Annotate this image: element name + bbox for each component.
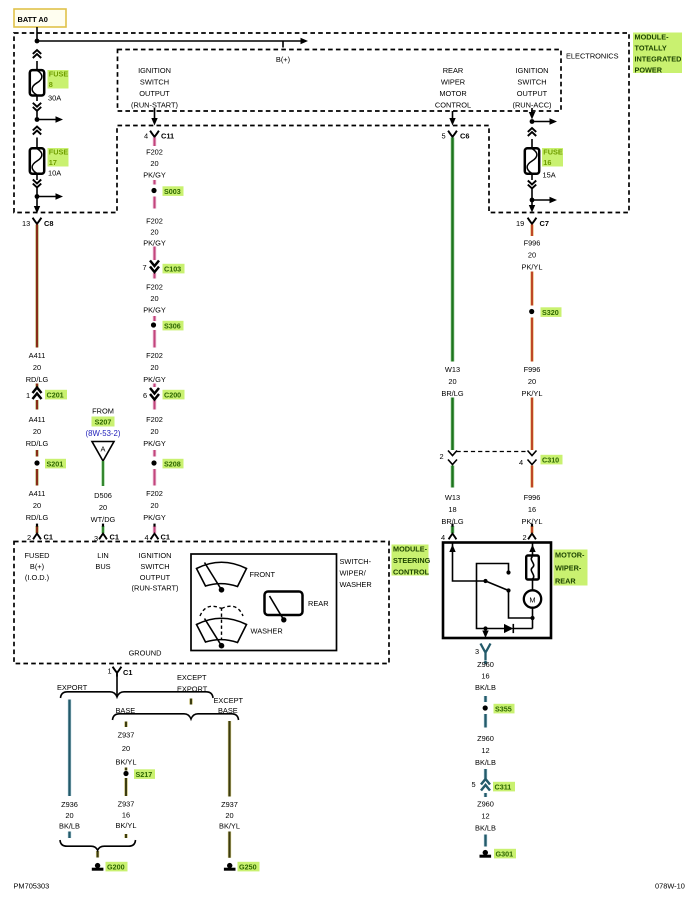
svg-text:20: 20 <box>150 159 158 168</box>
svg-text:PK/GY: PK/GY <box>143 171 166 180</box>
wire cap <box>531 524 533 527</box>
svg-text:2: 2 <box>523 533 527 542</box>
svg-text:4: 4 <box>441 533 445 542</box>
svg-text:S208: S208 <box>164 460 181 469</box>
svg-text:C7: C7 <box>540 219 549 228</box>
svg-text:W13: W13 <box>445 365 460 374</box>
wire contact loop <box>477 564 509 629</box>
svg-text:F996: F996 <box>524 493 541 502</box>
svg-text:3: 3 <box>475 647 479 656</box>
junction motor return <box>530 616 534 620</box>
wire <box>532 189 551 201</box>
junction <box>35 117 40 122</box>
svg-text:8: 8 <box>49 80 53 89</box>
svg-text:PK/GY: PK/GY <box>143 375 166 384</box>
switch contact <box>506 570 510 574</box>
svg-text:F202: F202 <box>146 148 163 157</box>
svg-text:RD/LG: RD/LG <box>26 439 49 448</box>
svg-text:C310: C310 <box>542 456 559 465</box>
wire Z960 BK/LB <box>484 661 488 847</box>
svg-text:6: 6 <box>143 391 147 400</box>
svg-text:S003: S003 <box>164 187 181 196</box>
svg-text:PM705303: PM705303 <box>14 882 50 891</box>
svg-text:IGNITION: IGNITION <box>138 66 171 75</box>
svg-text:G301: G301 <box>496 850 514 859</box>
svg-text:ELECTRONICS: ELECTRONICS <box>566 52 619 61</box>
svg-text:TOTALLY: TOTALLY <box>635 44 667 53</box>
module steering control box (dashed) <box>14 542 389 664</box>
svg-text:PK/GY: PK/GY <box>143 439 166 448</box>
wire cap <box>451 524 453 527</box>
connector C7 pin 19 <box>528 218 537 228</box>
wire cap <box>153 524 155 527</box>
svg-text:7: 7 <box>143 263 147 272</box>
svg-text:20: 20 <box>33 363 41 372</box>
svg-text:MOTOR-: MOTOR- <box>555 551 585 560</box>
svg-text:C6: C6 <box>460 132 469 141</box>
wire F996 PK/YL <box>530 225 534 534</box>
svg-text:Z960: Z960 <box>477 660 494 669</box>
svg-text:FUSE: FUSE <box>49 148 69 157</box>
fuse 8 <box>30 70 44 95</box>
module label TOTALLY INTEGRATED POWER <box>633 33 682 74</box>
connector pin 3 (fork below motor box) <box>481 644 491 661</box>
svg-text:Z937: Z937 <box>118 731 135 740</box>
wire <box>37 111 57 120</box>
svg-text:15A: 15A <box>543 171 556 180</box>
svg-text:16: 16 <box>481 672 489 681</box>
svg-text:BASE: BASE <box>218 706 238 715</box>
svg-text:CONTROL: CONTROL <box>435 101 471 110</box>
svg-text:D506: D506 <box>94 491 112 500</box>
svg-text:C11: C11 <box>161 132 174 141</box>
svg-text:MODULE-: MODULE- <box>635 33 670 42</box>
svg-text:MOTOR: MOTOR <box>439 89 466 98</box>
switch blade <box>486 581 509 591</box>
svg-text:5: 5 <box>472 780 476 789</box>
splice S320 <box>529 309 534 314</box>
splice S217 <box>123 771 128 776</box>
svg-text:16: 16 <box>528 505 536 514</box>
svg-text:A411: A411 <box>29 415 46 424</box>
svg-text:B(+): B(+) <box>30 562 44 571</box>
svg-text:Z937: Z937 <box>221 800 238 809</box>
svg-text:RD/LG: RD/LG <box>26 375 49 384</box>
svg-text:SWITCH-: SWITCH- <box>340 557 372 566</box>
splice S355 <box>483 705 488 710</box>
svg-text:(I.O.D.): (I.O.D.) <box>25 573 49 582</box>
svg-text:REAR: REAR <box>555 576 576 585</box>
connector C11 pin 4 <box>150 131 159 141</box>
wire <box>532 120 551 122</box>
svg-text:C1: C1 <box>44 533 53 542</box>
connector C201 pin 1 <box>33 388 42 400</box>
motor armature <box>524 590 541 607</box>
svg-text:30A: 30A <box>48 94 61 103</box>
svg-text:BK/YL: BK/YL <box>219 822 240 831</box>
svg-text:G250: G250 <box>239 863 257 872</box>
wire to diode <box>486 628 505 630</box>
svg-text:BK/YL: BK/YL <box>116 758 137 767</box>
wire cap <box>102 524 104 527</box>
svg-text:FUSED: FUSED <box>24 551 49 560</box>
svg-text:1: 1 <box>26 391 30 400</box>
connector chevrons above fuse 16 <box>528 128 536 136</box>
connector C1 pin 3 (male) <box>99 534 107 540</box>
svg-text:FROM: FROM <box>92 407 114 416</box>
svg-text:FRONT: FRONT <box>250 570 276 579</box>
svg-text:B(+): B(+) <box>276 55 290 64</box>
svg-text:C1: C1 <box>123 668 132 677</box>
wire arrow to C11 <box>154 108 156 119</box>
junction <box>35 39 40 44</box>
svg-text:G200: G200 <box>107 863 125 872</box>
wire <box>36 197 38 208</box>
svg-text:LIN: LIN <box>97 551 109 560</box>
svg-text:WIPER-: WIPER- <box>555 564 582 573</box>
svg-text:PK/YL: PK/YL <box>522 389 543 398</box>
svg-text:20: 20 <box>150 427 158 436</box>
svg-text:A411: A411 <box>29 489 46 498</box>
svg-text:10A: 10A <box>48 169 61 178</box>
module TIPM outline (dashed) <box>14 33 629 213</box>
wire Z937 stubs / base branch <box>98 699 191 858</box>
svg-text:REAR: REAR <box>443 66 464 75</box>
svg-text:C201: C201 <box>47 391 64 400</box>
svg-text:F996: F996 <box>524 365 541 374</box>
svg-text:BR/LG: BR/LG <box>441 389 463 398</box>
svg-text:WASHER: WASHER <box>251 627 283 636</box>
switch pivot <box>483 579 487 583</box>
svg-text:EXCEPT: EXCEPT <box>177 673 207 682</box>
module label MOTOR-WIPER-REAR <box>554 550 588 586</box>
svg-text:18: 18 <box>448 505 456 514</box>
svg-text:Z960: Z960 <box>477 734 494 743</box>
svg-text:(RUN-START): (RUN-START) <box>132 584 179 593</box>
svg-text:12: 12 <box>481 746 489 755</box>
brace export/except-export <box>61 692 214 698</box>
wire arrow to C6 <box>452 111 454 119</box>
wire return to blade tip <box>509 592 533 618</box>
connector chevrons above fuse 17 <box>33 127 41 135</box>
svg-text:S207: S207 <box>95 418 112 427</box>
connector chevrons below fuse 17 <box>33 180 41 188</box>
svg-text:MODULE-: MODULE- <box>393 545 428 554</box>
svg-text:OUTPUT: OUTPUT <box>140 573 171 582</box>
svg-text:S306: S306 <box>164 322 181 331</box>
svg-text:OUTPUT: OUTPUT <box>517 89 548 98</box>
junction <box>530 198 535 203</box>
svg-text:BK/LB: BK/LB <box>475 683 496 692</box>
svg-text:BK/LB: BK/LB <box>475 824 496 833</box>
wire <box>36 61 38 71</box>
svg-text:20: 20 <box>99 503 107 512</box>
svg-text:STEERING: STEERING <box>393 556 431 565</box>
svg-text:2: 2 <box>440 452 444 461</box>
svg-text:WIPER/: WIPER/ <box>340 569 367 578</box>
svg-text:PK/GY: PK/GY <box>143 513 166 522</box>
svg-text:INTEGRATED: INTEGRATED <box>635 55 682 64</box>
connector C1 pin 2 (male) <box>33 534 41 540</box>
svg-text:PK/YL: PK/YL <box>522 263 543 272</box>
wire B(+) bus <box>37 41 301 48</box>
connector chevrons below fuse 16 <box>528 181 536 189</box>
svg-text:PK/GY: PK/GY <box>143 239 166 248</box>
svg-text:Z936: Z936 <box>61 800 78 809</box>
switch wiper/washer box <box>191 554 337 651</box>
svg-text:Z937: Z937 <box>118 800 135 809</box>
connector C1 pin 4 (male) <box>151 534 159 540</box>
ground G200 <box>92 863 104 869</box>
svg-text:A411: A411 <box>29 351 46 360</box>
svg-text:20: 20 <box>225 811 233 820</box>
connector C310 pin 2 <box>448 451 457 465</box>
connector C6 pin 5 <box>448 131 457 141</box>
wire <box>531 174 533 180</box>
connector chevrons below fuse 8 <box>33 103 41 111</box>
connector C1 pin 1 <box>113 667 122 677</box>
connector chevrons above fuse 8 <box>33 50 41 58</box>
svg-text:C103: C103 <box>164 265 181 274</box>
motor M1 rear wiper motor box <box>443 543 551 639</box>
svg-text:M: M <box>529 596 535 605</box>
svg-text:OUTPUT: OUTPUT <box>139 89 170 98</box>
svg-text:EXCEPT: EXCEPT <box>214 696 244 705</box>
wire W13 BR/LG <box>451 138 455 534</box>
svg-text:C8: C8 <box>44 219 53 228</box>
icon front wiper <box>197 562 247 586</box>
breaker CB1 thermal protector <box>526 556 539 580</box>
junction <box>530 119 535 124</box>
fuse 17 <box>30 148 44 173</box>
fuse 16 <box>525 148 539 173</box>
connector pin 4 rear wiper motor (male) <box>449 534 457 540</box>
svg-text:19: 19 <box>516 219 524 228</box>
wire Z937 20 BK/YL (except base) <box>228 721 231 858</box>
svg-text:RD/LG: RD/LG <box>26 513 49 522</box>
wire pin3 exit <box>485 629 487 632</box>
svg-text:S201: S201 <box>47 460 64 469</box>
svg-text:EXPORT: EXPORT <box>177 685 208 694</box>
svg-text:F996: F996 <box>524 239 541 248</box>
svg-text:F202: F202 <box>146 283 163 292</box>
svg-text:BK/LB: BK/LB <box>59 822 80 831</box>
off-page triangle A <box>92 442 114 462</box>
module label STEERING CONTROL <box>392 545 429 576</box>
svg-text:20: 20 <box>528 377 536 386</box>
svg-text:20: 20 <box>448 377 456 386</box>
junction <box>35 194 40 199</box>
wire <box>36 138 38 149</box>
wire Z936 20 BK/LB (export) <box>68 700 72 839</box>
splice S208 <box>151 460 156 465</box>
svg-text:S355: S355 <box>495 705 512 714</box>
icon washer <box>200 606 243 616</box>
wire <box>36 96 38 102</box>
ground G250 <box>224 863 236 869</box>
wire pin4 internal <box>453 544 484 582</box>
svg-text:PK/GY: PK/GY <box>143 306 166 315</box>
svg-text:C311: C311 <box>495 783 512 792</box>
svg-text:078W-10: 078W-10 <box>655 882 685 891</box>
wire from BATT A0 <box>36 27 38 41</box>
svg-text:IGNITION: IGNITION <box>139 551 172 560</box>
svg-text:1: 1 <box>108 667 112 676</box>
svg-text:BATT A0: BATT A0 <box>18 15 48 24</box>
svg-text:FUSE: FUSE <box>543 148 563 157</box>
svg-text:20: 20 <box>150 294 158 303</box>
wire arrow from RUN-ACC <box>531 108 533 113</box>
svg-text:16: 16 <box>543 158 551 167</box>
svg-text:20: 20 <box>150 228 158 237</box>
svg-text:BK/YL: BK/YL <box>116 821 137 830</box>
svg-text:12: 12 <box>481 812 489 821</box>
svg-text:17: 17 <box>49 158 57 167</box>
svg-text:C1: C1 <box>110 533 119 542</box>
electronics inner box (dashed) <box>118 50 562 112</box>
svg-text:GROUND: GROUND <box>129 649 162 658</box>
svg-text:F202: F202 <box>146 415 163 424</box>
connector C8 pin 13 <box>33 218 42 228</box>
connector C310 pin 4 <box>528 451 537 465</box>
svg-text:4: 4 <box>519 458 523 467</box>
splice S201 <box>34 460 39 465</box>
svg-text:C200: C200 <box>164 391 181 400</box>
svg-text:WIPER: WIPER <box>441 78 465 87</box>
svg-text:20: 20 <box>33 427 41 436</box>
connector pin 2 rear wiper motor (male) <box>528 534 536 540</box>
svg-text:20: 20 <box>528 251 536 260</box>
svg-text:20: 20 <box>150 363 158 372</box>
wire exit arrow <box>34 206 40 214</box>
connector C200 pin 6 <box>150 388 159 400</box>
svg-text:20: 20 <box>122 744 130 753</box>
splice S306 <box>151 322 156 327</box>
svg-text:SWITCH: SWITCH <box>140 78 169 87</box>
diode D1 <box>504 624 513 633</box>
svg-text:EXPORT: EXPORT <box>57 683 88 692</box>
connector C311 pin 5 <box>481 779 490 791</box>
brace merge to G200 <box>60 840 136 850</box>
junction pin3 <box>483 626 487 630</box>
connector C103 pin 7 <box>150 261 159 273</box>
splice S003 <box>151 188 156 193</box>
wire pin2 internal <box>532 544 534 556</box>
svg-text:F202: F202 <box>146 489 163 498</box>
svg-text:20: 20 <box>33 501 41 510</box>
wire <box>36 174 38 180</box>
wire motor to junction <box>532 608 534 618</box>
svg-text:SWITCH: SWITCH <box>517 78 546 87</box>
svg-text:BUS: BUS <box>95 562 110 571</box>
wire <box>531 139 533 148</box>
svg-text:WT/DG: WT/DG <box>91 515 116 524</box>
svg-text:Z960: Z960 <box>477 800 494 809</box>
svg-text:BASE: BASE <box>116 706 136 715</box>
svg-text:20: 20 <box>65 811 73 820</box>
wire cap <box>36 524 38 527</box>
svg-text:CONTROL: CONTROL <box>393 567 430 576</box>
svg-text:A: A <box>101 445 106 454</box>
svg-text:C1: C1 <box>161 533 170 542</box>
icon rear wiper <box>265 592 303 616</box>
wire diode to motor leg <box>513 618 532 629</box>
svg-text:POWER: POWER <box>635 65 663 74</box>
node BATT A0 feed box <box>14 9 66 27</box>
wire breaker to motor <box>532 580 534 591</box>
svg-text:IGNITION: IGNITION <box>516 66 549 75</box>
wire F202 PK/GY <box>153 138 157 534</box>
wire A411 20 RD/LG <box>35 225 39 534</box>
svg-text:FUSE: FUSE <box>49 70 69 79</box>
wire <box>37 188 57 197</box>
svg-text:4: 4 <box>144 132 148 141</box>
ground G301 <box>480 850 492 856</box>
svg-text:13: 13 <box>22 219 30 228</box>
svg-text:F202: F202 <box>146 217 163 226</box>
svg-text:16: 16 <box>122 810 130 819</box>
svg-text:BK/LB: BK/LB <box>475 758 496 767</box>
brace base/except-base <box>113 714 239 720</box>
wire exits TIPM <box>531 200 533 206</box>
svg-text:REAR: REAR <box>308 599 329 608</box>
svg-text:F202: F202 <box>146 351 163 360</box>
svg-text:S217: S217 <box>136 770 153 779</box>
svg-text:5: 5 <box>442 132 446 141</box>
wire D506 20 WT/DG <box>101 461 105 533</box>
svg-text:20: 20 <box>150 501 158 510</box>
wire C1 to brace <box>116 676 118 696</box>
svg-text:W13: W13 <box>445 493 460 502</box>
wire C310 link (dashed) <box>457 451 528 453</box>
svg-text:WASHER: WASHER <box>340 580 372 589</box>
svg-text:(8W-53-2): (8W-53-2) <box>86 429 121 438</box>
svg-text:SWITCH: SWITCH <box>140 562 169 571</box>
svg-text:S320: S320 <box>542 308 559 317</box>
